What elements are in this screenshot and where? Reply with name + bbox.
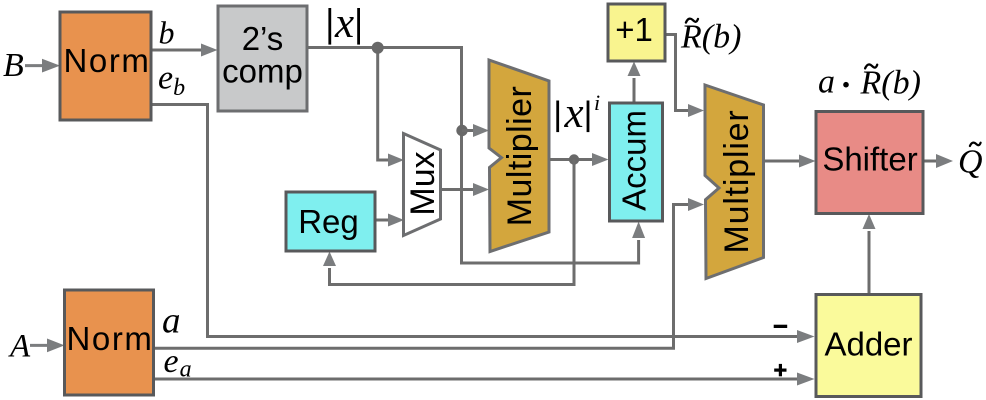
label |x|^i xyxy=(556,90,600,137)
svg-text:a: a xyxy=(818,64,835,101)
svg-text:b: b xyxy=(159,15,175,51)
node J1: junction on |x| wire xyxy=(372,42,384,54)
svg-text:Mux: Mux xyxy=(404,151,442,215)
wire +1 output to Multiplier U2 upper input xyxy=(665,35,704,118)
block Multiplier U2 xyxy=(705,85,764,279)
block Multiplier U1 xyxy=(489,60,549,252)
wire Mux output to Multiplier U1 lower input xyxy=(441,183,490,196)
wire |x|^i: Multiplier U1 output to Accum input xyxy=(549,153,609,166)
wire Reg output to Mux lower input xyxy=(375,214,404,227)
label plus at Adder xyxy=(774,364,786,376)
svg-text:Reg: Reg xyxy=(298,203,359,240)
wire Accum output up to +1 xyxy=(628,62,641,104)
svg-text:a: a xyxy=(162,301,181,342)
svg-text:i: i xyxy=(594,90,600,115)
svg-text:Shifter: Shifter xyxy=(822,141,917,178)
svg-text:+1: +1 xyxy=(615,11,653,48)
node J3: junction on |x|^i wire xyxy=(569,154,579,164)
arrow into Reg bottom xyxy=(323,252,336,267)
wire a: Norm-A output right then up to Multiplier U2 lower input xyxy=(154,198,705,348)
wire |x| branch down to Mux upper input xyxy=(378,48,404,167)
block Mux xyxy=(404,134,443,236)
svg-text:Multiplier: Multiplier xyxy=(501,86,539,227)
label |x| xyxy=(328,0,360,47)
svg-text:R(b): R(b) xyxy=(680,19,741,56)
label minus at Adder xyxy=(774,325,788,328)
block Adder xyxy=(816,295,921,397)
wire Multiplier U2 output to Shifter xyxy=(764,155,816,168)
block Accum xyxy=(610,103,663,221)
wire Shifter output to Q xyxy=(923,154,953,168)
wire e_b: Norm-B down and right to Adder minus input xyxy=(151,105,815,344)
svg-text:Adder: Adder xyxy=(824,326,912,363)
wire to Multiplier U1 upper input xyxy=(462,124,489,137)
svg-text:2’s: 2’s xyxy=(242,20,284,57)
svg-text:Q: Q xyxy=(958,144,983,181)
svg-text:Accum: Accum xyxy=(616,110,653,211)
wire feedback from |x|^i junction to Reg bottom input xyxy=(330,160,575,285)
svg-text:x: x xyxy=(334,0,354,47)
svg-text:B: B xyxy=(3,47,24,84)
label a.R~(b) xyxy=(818,64,921,102)
block +1 xyxy=(608,4,665,61)
svg-text:Multiplier: Multiplier xyxy=(718,109,756,253)
wire B input arrow xyxy=(25,59,60,73)
label Q~ xyxy=(958,143,983,181)
svg-text:Norm: Norm xyxy=(63,42,150,79)
wire b: Norm-B to 2's comp xyxy=(151,44,218,57)
svg-text:R(b): R(b) xyxy=(860,64,921,101)
label R~(b) xyxy=(680,19,741,56)
block Norm (B path) xyxy=(60,12,151,120)
wire e_a: Norm-A to Adder plus input xyxy=(154,373,815,386)
block Norm (A path) xyxy=(65,290,154,395)
wire |x|: 2's comp output horizontal xyxy=(307,46,463,49)
wire |x| vertical down to Accum-bottom feed xyxy=(462,48,639,264)
block Shifter xyxy=(816,112,923,214)
node J2: junction feeding Multiplier U1 upper input xyxy=(456,125,467,136)
block 2's comp xyxy=(218,6,307,111)
wire A input arrow xyxy=(30,339,65,353)
svg-text:x: x xyxy=(564,90,584,137)
svg-text:Norm: Norm xyxy=(66,320,153,357)
svg-text:comp: comp xyxy=(222,53,303,90)
block Reg xyxy=(286,192,375,251)
svg-text:A: A xyxy=(8,329,31,365)
wire Adder output up to Shifter bottom input xyxy=(863,214,876,295)
arrow into Accum bottom xyxy=(632,222,645,239)
